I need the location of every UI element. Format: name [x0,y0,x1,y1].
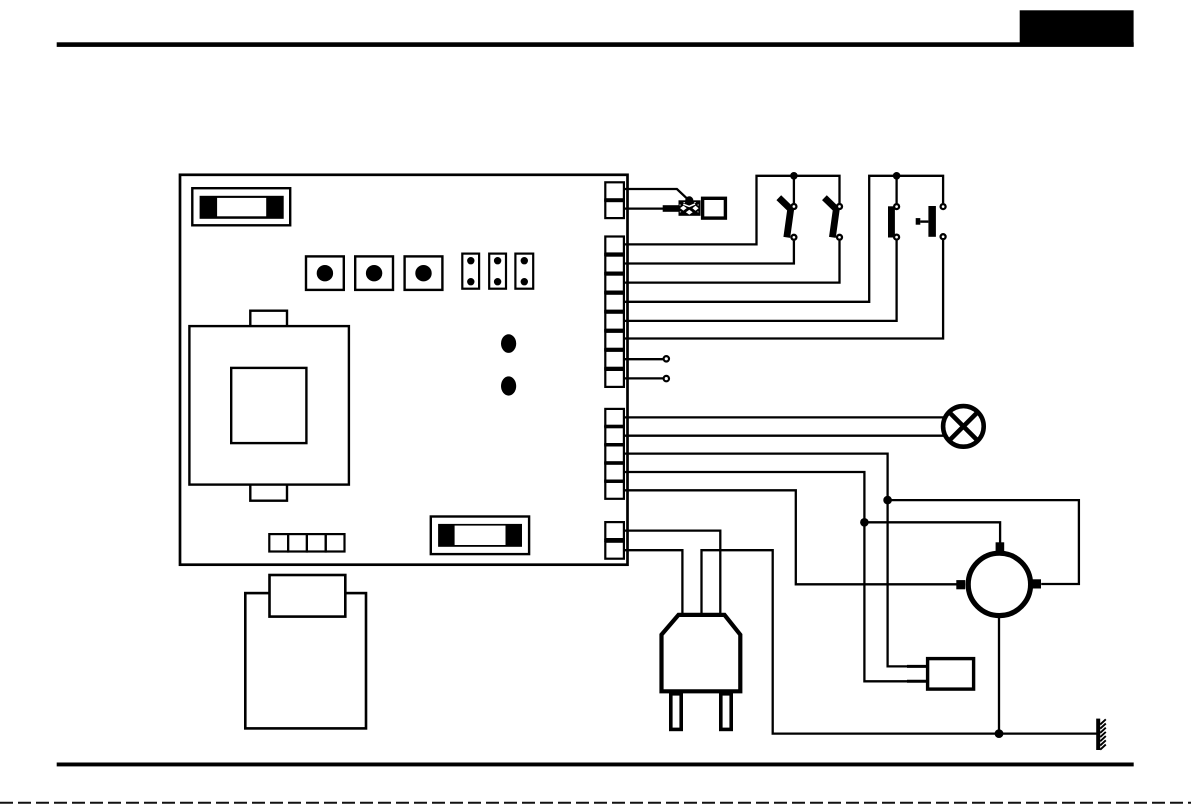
suppressor connector box [703,198,726,218]
switch S3 contacts [894,204,899,240]
transformer TR1 top block [270,575,346,617]
header J1 [462,254,479,289]
suppressor junction dot [685,196,693,204]
ground symbol hatching [1100,719,1106,749]
top rule [57,42,1134,47]
terminal T1 [664,356,669,361]
junction dot rail 2 [893,172,901,180]
wire D1 to plug [624,531,720,615]
pin separators [604,199,625,543]
wire C3 branch to motor right [888,500,1079,584]
indicator dot D2 [501,376,516,395]
wire C4 branch to motor top [864,522,1000,544]
MCU U1 outline [189,326,349,485]
wire B6 [624,240,943,339]
motor M1 bottom wire [998,616,1000,734]
header black block [1020,10,1134,46]
connector pins group C [605,409,624,499]
capacitor C1 stubs [907,666,927,681]
wire B4 to rail 2 [624,176,943,302]
connector pins group D [605,522,624,559]
switch S1 contacts [791,204,796,240]
indicator dot D1 [501,334,516,353]
push button S4 stem [920,220,928,222]
wire D2 to plug [624,550,683,615]
plug prong right [721,694,731,730]
connector pins group A [605,182,624,218]
wire B8 [624,377,663,379]
wire B1 to rail 1 [624,176,840,245]
wire C3 to capacitor [624,454,925,667]
lamp E1 [943,406,984,447]
MCU U1 top tab [250,311,287,327]
connector pins group B [605,237,624,387]
motor M1 right terminal [1032,579,1041,588]
header J3 [515,254,533,289]
wire C5 to motor left [624,490,957,584]
rail 1 drop to S1 [793,176,795,204]
wire C2 [624,435,945,437]
junction dot ground line [995,729,1004,738]
fuse F1 body [200,196,284,219]
fuse F1 window [217,198,266,216]
wire A2 [624,207,664,209]
fuse F1 outer [192,188,290,225]
wire B3 [624,241,840,283]
push button S4 plunger [916,206,936,237]
switch S1 blade [779,198,791,238]
suppressor stub [663,205,679,212]
transformer TR1 body [245,593,366,728]
MCU U1 bottom tab [250,484,287,501]
wire B5 [624,240,897,321]
button S6 [355,256,393,290]
wire B2 [624,241,794,264]
ground symbol bar [1096,719,1100,750]
mains plug P1 body [662,615,741,691]
motor M1 top terminal [996,542,1005,551]
wire C1 [624,416,945,418]
switch S3 blade [888,206,895,237]
push button S4 contacts [941,204,946,239]
rail 2 drop to S3 [895,176,897,204]
junction dot C3 [883,496,892,505]
switch S2 blade [824,198,836,238]
suppressor hatched body [679,200,701,216]
terminal T2 [664,376,669,381]
motor M1 body [968,553,1030,615]
control board PCB outline [180,175,628,565]
motor M1 left terminal [956,580,965,589]
bottom rule [57,763,1134,767]
header J2 [489,254,506,289]
capacitor C1 box [928,659,974,690]
fuse F2 window [455,526,506,545]
fuse F2 body [438,524,522,547]
wire A1 [624,189,689,200]
wire B7 [624,358,663,360]
button S5 [306,256,344,290]
wire C4 to capacitor [624,472,925,681]
junction dot C4 [860,518,869,527]
DIP block [269,534,344,551]
plug prong left [671,694,681,730]
button S7 [405,256,443,290]
fuse F2 outer [431,517,529,555]
junction dot rail 1 [790,172,798,180]
page edge dashed line [0,802,1191,804]
MCU U1 die [231,368,306,443]
switch S2 contacts [837,204,842,240]
earth wire plug to ground [702,550,1097,733]
